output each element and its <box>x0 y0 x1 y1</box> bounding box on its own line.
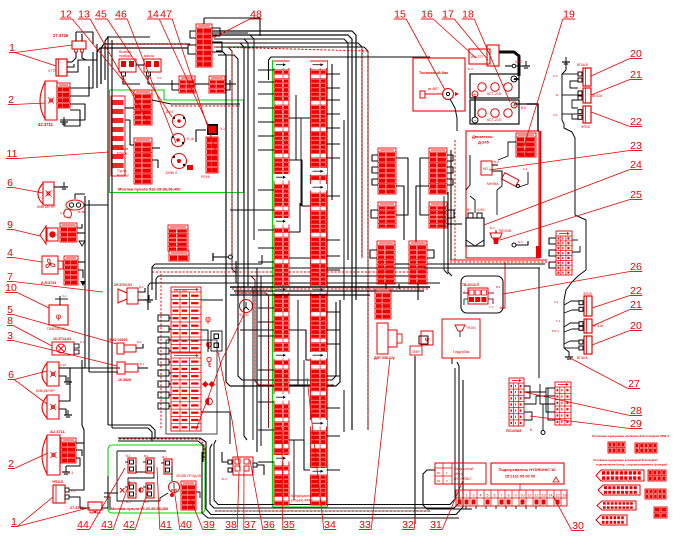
svg-text:13: 13 <box>542 494 546 498</box>
stub column left of fuse table <box>158 315 171 409</box>
callout 47 top <box>160 9 216 153</box>
svg-text:Ч-1: Ч-1 <box>60 211 65 215</box>
label block KhP-5 in console1 <box>111 96 125 176</box>
connector of headlamp 2b <box>61 438 76 463</box>
svg-text:7: 7 <box>501 494 503 498</box>
svg-text:Топливный бак: Топливный бак <box>419 71 448 75</box>
svg-text:Р.берд: Р.берд <box>117 152 127 156</box>
wire mid horizontal trunk <box>150 264 440 283</box>
label Montazh pulta 512 <box>118 187 181 192</box>
svg-text:Условные нумерации клеммовой В: Условные нумерации клеммовой В колодках <box>593 458 658 462</box>
svg-text:С-1: С-1 <box>68 471 73 475</box>
svg-text:Б-1: Б-1 <box>139 285 144 289</box>
callout 17 top <box>442 9 488 61</box>
fuel tank box <box>413 58 465 111</box>
connector pair A right <box>429 148 447 194</box>
callout 24 right <box>484 159 642 225</box>
wire loops pair B <box>371 210 462 224</box>
relay R/U08 in console1 <box>207 124 225 135</box>
svg-text:80Вт,86+НР: 80Вт,86+НР <box>37 205 56 209</box>
wire relay 27.3726 legs <box>72 52 86 62</box>
svg-text:ПА6208-25: ПА6208-25 <box>47 327 65 331</box>
callout 3 left <box>7 330 117 366</box>
svg-text:ПС100А5: ПС100А5 <box>506 429 521 433</box>
lamp item 6b lower <box>36 389 59 419</box>
svg-text:-: - <box>474 119 476 125</box>
label engine D-245 <box>472 134 493 145</box>
generator in engine <box>466 208 485 246</box>
callout 44 bottom <box>77 468 125 531</box>
callout 14 top <box>147 9 209 128</box>
connector pair C right <box>409 241 427 284</box>
switch S4 console2 <box>120 483 136 504</box>
pump MZN item 32 <box>410 331 433 355</box>
svg-text:Б-1: Б-1 <box>126 454 131 458</box>
legend small grid B <box>645 489 666 499</box>
wire harness red dash console2 <box>119 439 204 460</box>
callout 28 right <box>524 392 642 417</box>
svg-text:φ: φ <box>205 314 211 324</box>
node stubs left of column A <box>258 70 274 462</box>
wire red dash vertical center-left <box>160 274 162 430</box>
svg-text:Г-1: Г-1 <box>461 290 465 294</box>
node stubs right of column B <box>327 74 341 470</box>
icon turnsignal diamonds <box>202 381 215 388</box>
legend arrow block D <box>596 515 627 525</box>
plug FP15 item 22 <box>578 106 591 129</box>
svg-text:10: 10 <box>521 494 525 498</box>
svg-text:МП: МП <box>483 167 489 171</box>
svg-text:6: 6 <box>494 494 496 498</box>
svg-text:Р/У08: Р/У08 <box>201 175 210 179</box>
plug VPSh-B item 20 <box>577 63 591 86</box>
svg-text:Ч-1: Ч-1 <box>62 294 67 298</box>
svg-text:3: 3 <box>473 494 475 498</box>
switch S5 console2 <box>139 483 154 504</box>
svg-text:В+: В+ <box>467 208 471 212</box>
callout 38 bottom <box>225 472 239 531</box>
svg-text:подключения батар, стартер-вып: подключения батар, стартер-выпрямит, фон… <box>596 463 667 467</box>
svg-text:Ч-1: Ч-1 <box>554 300 559 304</box>
wire across top of columns <box>269 57 431 80</box>
svg-text:ЭМ2 02003: ЭМ2 02003 <box>109 338 128 342</box>
svg-text:16.3828: 16.3828 <box>118 378 131 382</box>
svg-text:ТН100: ТН100 <box>466 326 476 330</box>
callout 25 right <box>500 189 642 240</box>
svg-text:Монтаж пульта 512-28-86,98,400: Монтаж пульта 512-28-86,98,400 <box>118 187 181 192</box>
svg-text:φ: φ <box>56 312 61 321</box>
wire verticals in gap between columns <box>294 95 304 500</box>
svg-text:Жидкостный: Жидкостный <box>454 467 473 471</box>
wire lamp6a ground <box>54 182 68 189</box>
sensor B-2 circle <box>512 240 528 247</box>
enclosure around TV101 <box>444 192 503 313</box>
wire item9 to trunk <box>77 224 85 246</box>
relay IO4.3717 <box>468 45 499 71</box>
callout 21 right mid <box>592 299 642 326</box>
wire lamp area bend bottom-left <box>85 368 155 441</box>
callout 36 bottom <box>250 460 275 531</box>
callout 5 left <box>7 304 117 344</box>
connector below pair C <box>375 289 391 319</box>
wire bottom bus rounded box <box>202 362 463 518</box>
connector 2pin white near fuse table <box>211 331 222 351</box>
callout 6 left upper <box>7 177 43 193</box>
icon key <box>207 357 212 366</box>
svg-text:массы: массы <box>144 54 155 58</box>
label T.Lyuba <box>117 147 128 156</box>
lamp with cross item 8 <box>52 337 85 355</box>
legend title 1 <box>592 434 669 438</box>
label fuse table header <box>174 289 187 293</box>
svg-text:2: 2 <box>466 494 468 498</box>
wire loops at top strip <box>188 18 260 54</box>
relay block item39 console2 <box>181 481 196 510</box>
component 16.3828 item 3 <box>117 362 148 382</box>
svg-text:В-4Б: В-4Б <box>78 210 85 214</box>
svg-text:Б-2: Б-2 <box>490 226 495 230</box>
callout 35 bottom <box>282 430 295 531</box>
icon phi outline <box>205 314 211 324</box>
box heater HYDRONIC 10 <box>491 463 564 484</box>
callout 39 bottom <box>190 498 215 531</box>
svg-text:К-1: К-1 <box>523 167 528 171</box>
wire headlamp2b <box>62 443 84 475</box>
svg-text:МЗН: МЗН <box>413 350 421 354</box>
connector pair small left <box>179 76 195 93</box>
callout 15 top <box>394 9 445 91</box>
svg-text:6СТ-215: 6СТ-215 <box>487 92 501 96</box>
connector strip right-mid <box>556 231 572 275</box>
connector header block <box>169 251 189 261</box>
callout 16 top <box>421 9 476 59</box>
leader line from gauge PS100 <box>196 312 245 430</box>
gauge cluster circle 2 <box>172 134 195 147</box>
svg-text:6В,В,НМ: 6В,В,НМ <box>174 289 187 293</box>
wire gidrobak down verticals <box>451 358 453 364</box>
svg-text:1: 1 <box>459 494 461 498</box>
svg-text:К-1: К-1 <box>553 74 558 78</box>
svg-text:42.3711: 42.3711 <box>38 122 54 127</box>
callout 10 left <box>5 282 49 308</box>
wire lamps6b <box>59 363 85 417</box>
svg-text:6СТ-215: 6СТ-215 <box>487 118 501 122</box>
wire switch blocks <box>123 65 170 84</box>
wire mid trunk crossing columns <box>230 287 430 428</box>
legend arrow block C <box>597 501 636 510</box>
callout 2 left lower <box>8 453 48 470</box>
plug VP116 item 21 <box>578 88 602 103</box>
connector PS100A5 left table <box>506 378 524 433</box>
svg-text:9: 9 <box>515 494 517 498</box>
svg-text:ТВ.101/2-П: ТВ.101/2-П <box>462 283 480 287</box>
connector of item 4 <box>64 256 78 285</box>
callout 8 left <box>7 315 52 346</box>
wire callout32 long vertical <box>414 356 416 524</box>
callout 20 right upper <box>591 48 642 76</box>
svg-text:Р.мотор: Р.мотор <box>117 174 129 178</box>
callout 2 left <box>8 94 45 106</box>
box liquid heater item 31 <box>435 463 486 484</box>
connector strip top-center <box>196 24 212 67</box>
callout 43 bottom <box>101 481 130 531</box>
wire item4 to trunk <box>78 262 86 286</box>
wire harness red dash left vertical <box>228 47 344 432</box>
gauge cluster circle 3 <box>166 154 193 176</box>
wire right loop verticals around columns <box>332 64 344 300</box>
svg-text:Ч-50: Ч-50 <box>515 60 522 64</box>
svg-text:Ч-1: Ч-1 <box>553 113 558 117</box>
fuel level sender <box>420 87 459 100</box>
engine box D-245 border <box>466 131 541 258</box>
wire right column long vertical <box>575 150 586 262</box>
relay 27.3726 top-left <box>53 33 86 52</box>
wire plugs set1 to vertical <box>553 74 578 119</box>
svg-text:К-1: К-1 <box>80 340 85 344</box>
battery 1 6ST-215 <box>470 74 519 99</box>
box DVT 008-12v item 33 <box>374 323 402 360</box>
temp sensor TM100V <box>490 226 512 244</box>
heater connector long row <box>456 484 567 506</box>
ground top of plug column <box>562 57 570 64</box>
svg-text:Д-245: Д-245 <box>478 140 490 145</box>
wire battery interconnect <box>475 79 538 131</box>
legend block row1 left <box>608 442 625 453</box>
callout 40 bottom <box>174 488 192 531</box>
wire steering area verticals <box>201 255 262 452</box>
connector of item 9 <box>60 223 77 242</box>
svg-text:МН95А: МН95А <box>487 182 499 186</box>
svg-text:ФП15: ФП15 <box>583 292 592 296</box>
connector pair B left <box>378 202 396 228</box>
headlamp 42.3711 (item 2) <box>40 81 57 120</box>
callout 29 right <box>530 416 642 430</box>
svg-text:50: 50 <box>437 471 441 475</box>
fan unit item 4 <box>41 256 63 285</box>
switch S2 console2 <box>143 454 154 473</box>
connector cells below relay R/U08 <box>201 137 218 179</box>
svg-text:Г-1: Г-1 <box>556 319 561 323</box>
svg-text:25.08В ОР Вд 08: 25.08В ОР Вд 08 <box>176 474 201 478</box>
callout 12 top <box>60 9 136 97</box>
callout 22 right mid <box>592 285 642 308</box>
svg-text:Б-1А: Б-1А <box>187 137 195 141</box>
wire far-left trunk verticals <box>85 36 112 428</box>
wire red dash engine left vertical <box>451 140 455 262</box>
wire below engine extension <box>424 264 545 378</box>
svg-text:16: 16 <box>563 494 567 498</box>
wire plugs set2 to vertical <box>552 300 579 348</box>
wire harness red dash mid <box>152 271 428 273</box>
wire loops pair C <box>370 250 446 300</box>
callout 4 left <box>7 247 42 262</box>
connector pair small right <box>209 76 225 93</box>
svg-text:14: 14 <box>549 494 553 498</box>
callout 27 right <box>570 358 640 390</box>
callout 48 top <box>213 9 262 39</box>
callout 30 bottom <box>553 496 584 532</box>
svg-text:Гидробак: Гидробак <box>453 350 470 354</box>
svg-text:Условные нумерации клеммовой В: Условные нумерации клеммовой В колодках … <box>592 434 669 438</box>
callout 19 top <box>524 9 575 147</box>
terminal strip column B (right) <box>310 61 327 505</box>
wire thick battery loop <box>499 52 530 76</box>
wire top trunk bundle <box>97 31 356 430</box>
svg-text:Г-4: Г-4 <box>489 305 493 309</box>
svg-text:Б-4: Б-4 <box>222 477 227 481</box>
green border right of terminal column B <box>327 60 329 507</box>
headlamp A2.3711 item 2b <box>42 429 66 475</box>
wire fuel sender down <box>450 99 457 131</box>
svg-text:φ: φ <box>206 339 213 349</box>
svg-text:ВП116: ВП116 <box>592 94 602 98</box>
switch S1 console2 <box>125 454 136 473</box>
callout 41 bottom <box>157 467 172 531</box>
svg-text:В-4: В-4 <box>496 285 501 289</box>
svg-text:15: 15 <box>556 494 560 498</box>
switch block vykl massa 1 <box>119 50 136 80</box>
svg-text:29.3721-01: 29.3721-01 <box>114 283 132 287</box>
svg-text:Кондиционер: Кондиционер <box>291 494 313 498</box>
gray enclosure around fuse table <box>166 340 217 434</box>
solenoid EM2 02003 item 5 <box>109 338 143 354</box>
box Gidrobak <box>442 319 480 358</box>
callout 20 right mid <box>592 320 642 345</box>
legend small grid C <box>654 507 667 518</box>
wire harness red dash top <box>107 43 368 430</box>
green border bottom of terminal columns <box>273 506 328 508</box>
svg-text:ФП15: ФП15 <box>581 125 590 129</box>
svg-text:ЧТТ5: ЧТТ5 <box>48 69 56 73</box>
callout 33 bottom <box>359 358 390 531</box>
wire between PS100A5 tables <box>524 384 555 435</box>
plug FP15 item 22b <box>579 292 592 316</box>
svg-text:ВПШ-Б: ВПШ-Б <box>577 356 589 360</box>
svg-text:ДВТ 008-12у: ДВТ 008-12у <box>374 356 395 360</box>
wire engine red dashed bottom bus <box>450 246 547 262</box>
svg-text:4: 4 <box>480 494 482 498</box>
callout 9 left <box>7 219 40 236</box>
green enclosure console box 1 (Montazh pulta 512) <box>110 90 244 193</box>
svg-text:80Вт,86+НР: 80Вт,86+НР <box>36 389 55 393</box>
wire engine internals <box>466 142 516 215</box>
lamp item 1b <box>52 480 76 503</box>
callout 21 right upper <box>591 69 642 95</box>
flasher item 9 <box>40 226 58 244</box>
wire console1 internal dashed bus <box>125 100 240 168</box>
svg-text:Ч-1: Ч-1 <box>220 127 225 131</box>
switch block vykl massa 2 <box>144 54 162 80</box>
svg-text:Б-2: Б-2 <box>494 160 499 164</box>
wire between small pairs <box>170 80 236 90</box>
callout 42 bottom <box>123 487 149 531</box>
svg-text:Ч-1: Ч-1 <box>157 76 162 80</box>
connector strip console1 lower <box>134 138 152 184</box>
wire loops strip right-mid <box>549 238 580 268</box>
svg-text:52: 52 <box>437 479 441 483</box>
green border left of terminal column A <box>272 60 274 507</box>
battery 2 6ST-215 <box>470 100 519 125</box>
wire heater connections <box>423 470 536 509</box>
lamp item 6a <box>37 182 56 209</box>
wire bottom-left lamps to trunk <box>69 360 118 510</box>
block TV101 relay <box>461 262 505 309</box>
connector oval with two pins <box>60 200 85 218</box>
svg-text:В-1: В-1 <box>144 454 149 458</box>
icon phi solid <box>206 339 213 349</box>
connector block items 36-38 <box>222 452 264 481</box>
svg-text:ТМ100В: ТМ100В <box>498 229 512 233</box>
svg-text:А2.3711: А2.3711 <box>50 429 66 434</box>
label 42.3711 <box>38 122 54 127</box>
callout 1 top-left <box>9 42 72 66</box>
label Montazh pulta 50-20 <box>111 507 168 511</box>
ground bottom plug column 2 <box>564 348 573 359</box>
fuse table steering column lower section <box>171 353 201 431</box>
svg-text:обогр.: обогр. <box>454 472 464 476</box>
wire console2 internal frame <box>117 451 200 501</box>
wire console2 top bundle <box>118 438 206 462</box>
connector strip console1 upper <box>134 90 152 125</box>
svg-text:Б-2: Б-2 <box>518 240 523 244</box>
leader line from connector 2pin <box>218 352 240 470</box>
wire harness red dash bottom bus <box>215 510 430 512</box>
svg-text:Двигатель: Двигатель <box>472 134 493 139</box>
plug VP116 item 21b <box>579 319 603 333</box>
callout 1 bottom-left <box>11 497 88 528</box>
callout 7 left <box>7 271 103 292</box>
svg-text:Ф-1: Ф-1 <box>162 455 167 459</box>
connector strip steering upper <box>168 225 188 251</box>
glow plug MN95A <box>487 167 528 188</box>
svg-text:ЧП115: ЧП115 <box>52 480 63 484</box>
wire mid trunk left corners <box>148 264 158 310</box>
fuse table steering column upper section <box>171 287 201 352</box>
terminal strip column A (left) <box>274 61 290 505</box>
callout 37 bottom <box>244 466 256 531</box>
svg-text:Ч+50: Ч+50 <box>477 208 485 212</box>
connector pair A left <box>378 148 396 194</box>
svg-text:16.3714-01: 16.3714-01 <box>53 337 71 341</box>
svg-text:12: 12 <box>535 494 539 498</box>
svg-text:25 2161 05 00 00: 25 2161 05 00 00 <box>505 474 535 479</box>
callout 6 left lower <box>8 369 47 404</box>
wire headlamp2 to trunk <box>60 52 93 126</box>
svg-text:К-15: К-15 <box>60 363 66 367</box>
svg-text:Б-: Б- <box>556 93 559 97</box>
relay 27.3726 bottom <box>70 502 102 513</box>
starter block in engine <box>516 133 536 157</box>
wire plug column vertical 1 <box>562 62 575 150</box>
gauge cluster circle 1 <box>166 110 186 128</box>
svg-text:Р-1: Р-1 <box>140 362 145 366</box>
legend arrow block A <box>596 470 644 481</box>
connector pair B right <box>429 202 447 228</box>
callout 13 top <box>78 9 148 123</box>
legend block row1 right <box>635 443 657 453</box>
svg-text:Б-: Б- <box>530 428 533 432</box>
wire strip right-mid down to plugs set2 <box>564 262 586 348</box>
callout 18 top <box>462 9 510 103</box>
svg-text:БМВт Л: БМВт Л <box>166 171 177 175</box>
svg-text:РС-1: РС-1 <box>552 329 559 333</box>
wire crossing gap between columns <box>230 118 310 470</box>
callout 11 left <box>6 148 109 160</box>
legend title 2 <box>593 458 667 467</box>
callout 34 bottom <box>307 378 336 531</box>
gauge circle console2 <box>169 482 180 498</box>
switch S3 console2 <box>161 455 172 474</box>
